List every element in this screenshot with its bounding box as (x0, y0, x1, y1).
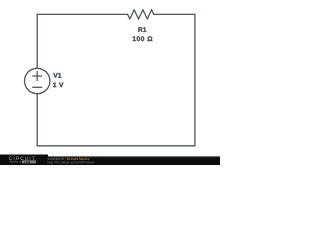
wire left lower segment (36, 94, 38, 146)
watermark CircuitLab logo (9, 157, 36, 164)
voltage source minus sign (33, 86, 42, 88)
wire bottom (37, 145, 195, 147)
watermark credit text lines (48, 158, 95, 165)
watermark bar (0, 157, 220, 165)
wire top-left segment (37, 13, 127, 15)
value label 1 V (53, 82, 63, 87)
voltage source plus sign (33, 72, 42, 81)
wire top-right segment (154, 13, 195, 15)
label V1 (53, 73, 61, 78)
value label 100 Ohm (133, 36, 153, 41)
voltage source V1 body (25, 68, 50, 93)
resistor R1 (128, 10, 154, 19)
wire right side (194, 14, 196, 145)
watermark logo backdrop (0, 155, 48, 165)
label R1 (138, 27, 146, 32)
wire left upper segment (36, 14, 38, 68)
